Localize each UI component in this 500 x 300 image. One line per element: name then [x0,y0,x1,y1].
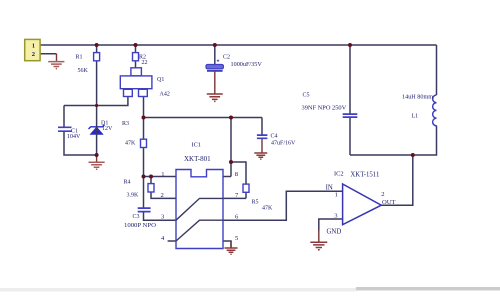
svg-text:1: 1 [161,171,164,178]
svg-text:4: 4 [161,235,165,242]
svg-text:XKT-1511: XKT-1511 [350,171,379,178]
svg-text:2: 2 [161,192,164,199]
svg-text:47K: 47K [125,141,136,147]
svg-text:IN: IN [326,185,333,192]
svg-text:IC1: IC1 [192,142,202,149]
svg-text:5: 5 [235,235,239,242]
svg-text:3.9K: 3.9K [127,193,140,199]
svg-text:C4: C4 [271,134,278,140]
svg-text:GND: GND [327,228,342,235]
svg-text:1000uF/35V: 1000uF/35V [231,61,263,68]
svg-text:1: 1 [335,191,338,198]
svg-text:1: 1 [32,42,35,49]
svg-text:104V: 104V [67,134,81,140]
svg-text:IC2: IC2 [334,170,344,177]
svg-text:R3: R3 [122,121,129,127]
svg-text:C2: C2 [223,55,230,61]
svg-text:Q1: Q1 [157,77,164,83]
svg-text:39NF NPO 250V: 39NF NPO 250V [302,105,347,112]
svg-text:56K: 56K [78,68,89,74]
svg-text:1000P NPO: 1000P NPO [124,222,156,229]
svg-text:47uF/16V: 47uF/16V [271,141,296,147]
svg-text:C3: C3 [133,214,140,220]
svg-text:2: 2 [381,191,384,198]
svg-text:L1: L1 [412,114,419,120]
svg-text:OUT: OUT [382,199,396,206]
svg-text:R4: R4 [124,180,131,186]
svg-text:14uH 80mm: 14uH 80mm [402,93,433,100]
svg-text:8: 8 [235,171,239,178]
svg-text:C5: C5 [303,93,310,99]
svg-text:22: 22 [142,60,148,66]
svg-text:R5: R5 [252,200,259,206]
svg-text:47K: 47K [262,205,273,211]
svg-text:XKT-801: XKT-801 [184,155,211,163]
svg-text:R1: R1 [76,55,83,61]
svg-text:12V: 12V [102,126,113,132]
svg-text:A42: A42 [160,91,170,97]
